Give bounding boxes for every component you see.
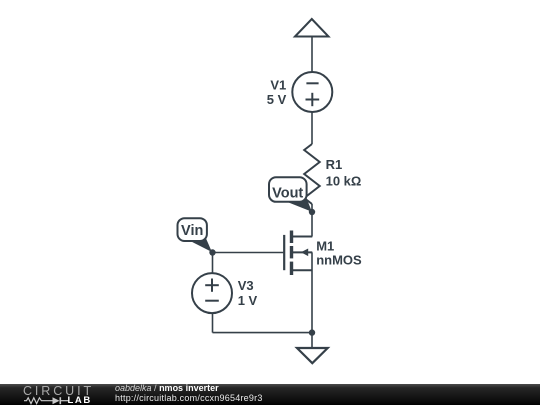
svg-text:M1: M1 (316, 238, 334, 253)
svg-text:10 kΩ: 10 kΩ (326, 174, 362, 189)
svg-text:nnMOS: nnMOS (316, 253, 362, 268)
svg-text:R1: R1 (326, 157, 343, 172)
svg-text:V1: V1 (270, 77, 286, 92)
svg-text:5 V: 5 V (267, 92, 287, 107)
svg-text:V3: V3 (238, 278, 254, 293)
svg-text:1 V: 1 V (238, 293, 258, 308)
svg-text:Vout: Vout (272, 185, 303, 201)
svg-text:Vin: Vin (181, 223, 203, 239)
